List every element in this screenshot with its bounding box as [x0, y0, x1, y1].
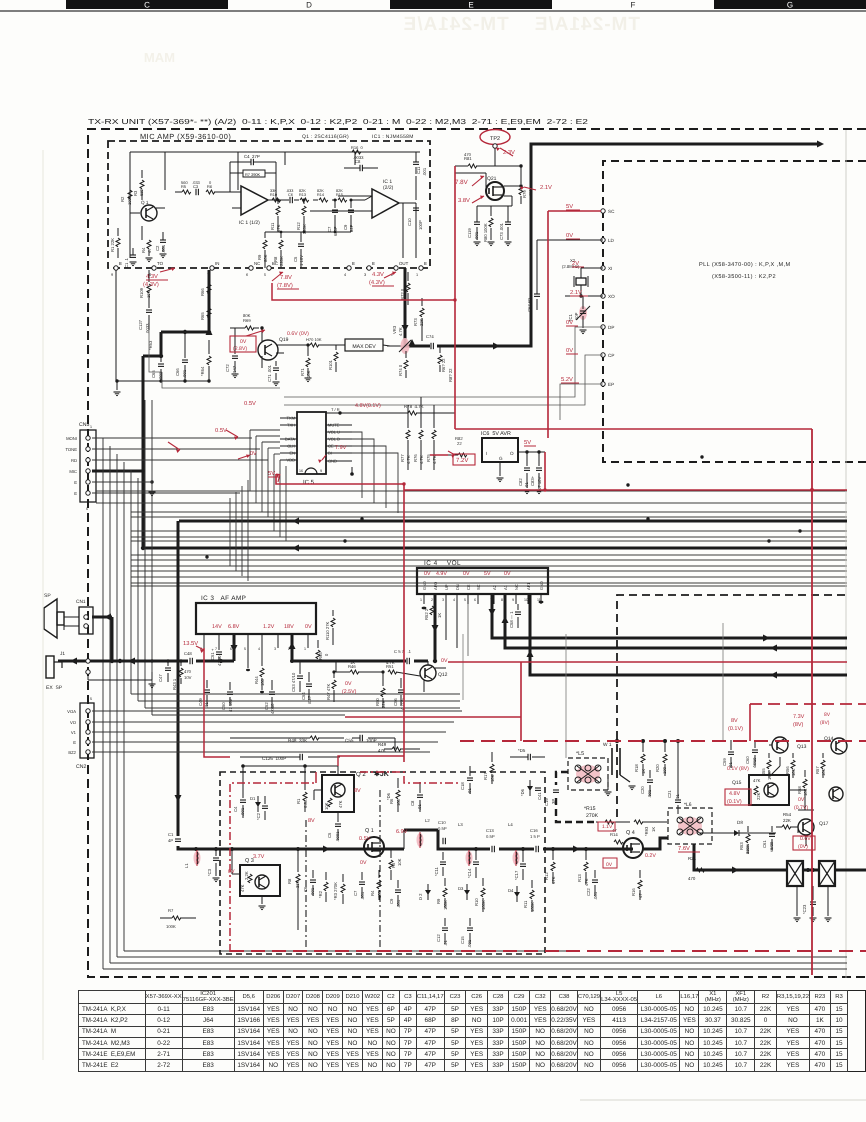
capacitor C67 5P	[534, 293, 540, 295]
svg-text:.001: .001	[360, 891, 365, 900]
resistor R2 100K	[128, 190, 132, 199]
op-amp IC1 (1/2)	[241, 186, 268, 215]
diode D4	[516, 886, 518, 902]
svg-text:22K: 22K	[419, 318, 424, 326]
capacitor C47 .1	[165, 667, 171, 669]
svg-text:80K: 80K	[243, 313, 251, 318]
diode D6	[529, 780, 531, 796]
svg-text:100K: 100K	[443, 900, 448, 910]
resistor R20 100	[663, 754, 667, 763]
capacitor C11b	[440, 861, 446, 863]
wire q15 to q13	[769, 744, 772, 746]
svg-text:C54: C54	[301, 692, 306, 700]
wire TP2 stub	[494, 148, 496, 166]
svg-text:R14: R14	[317, 193, 324, 197]
svg-text:C7: C7	[327, 226, 332, 232]
svg-text:0.6V (0V): 0.6V (0V)	[287, 331, 309, 337]
PLL module dashed box	[603, 161, 866, 462]
svg-text:R18: R18	[634, 764, 639, 772]
svg-text:C1: C1	[168, 832, 174, 837]
red wire IC5 VDD 5V run	[276, 474, 404, 484]
svg-text:C83+: C83+	[530, 475, 535, 486]
wire DP lead	[284, 327, 603, 397]
svg-text:0V: 0V	[228, 869, 235, 875]
svg-text:R7: R7	[168, 908, 174, 913]
transistor Q15 boxed	[749, 775, 789, 805]
svg-text:(8V): (8V)	[820, 720, 830, 726]
resistor R53 330K	[746, 834, 750, 843]
transformer L6 windings	[677, 817, 683, 823]
thick bus line y521	[179, 520, 847, 523]
capacitor C48 series 470 10V	[188, 656, 196, 666]
svg-text:4.7K: 4.7K	[432, 455, 437, 464]
wire pin4 stub	[261, 634, 263, 648]
wire bundle left verticals	[102, 438, 104, 969]
wire gnd rail q19	[117, 380, 209, 382]
resistor R16 0	[352, 150, 361, 154]
resistor R4 47	[147, 240, 151, 249]
capacitor C6 .033	[289, 197, 291, 203]
svg-text:100: 100	[260, 678, 265, 686]
svg-text:CN5: CN5	[79, 422, 89, 428]
svg-text:(0V): (0V)	[798, 844, 808, 850]
resistor R3b 270K	[341, 884, 345, 893]
thick wire pin2 stub	[291, 634, 294, 661]
wire d8 line	[700, 832, 726, 834]
capacitor C7 680P	[332, 209, 338, 211]
wire af mid lines	[335, 661, 337, 672]
svg-text:LD: LD	[608, 238, 615, 243]
svg-text:10K: 10K	[821, 768, 826, 776]
svg-text:T / R: T / R	[331, 407, 340, 412]
svg-text:0V: 0V	[606, 862, 613, 868]
schematic outer dashed border (TX-RX unit)	[88, 129, 866, 977]
svg-text:L1: L1	[184, 863, 189, 868]
svg-text:10K: 10K	[490, 774, 495, 782]
IC4 VOL box	[417, 568, 548, 594]
red wire af rail	[448, 661, 847, 663]
FE unit dashed box	[220, 772, 545, 954]
svg-text:C72: C72	[225, 364, 230, 372]
svg-text:.001: .001	[396, 899, 401, 908]
resistor R69 80K	[245, 326, 254, 330]
resistor R74 0	[404, 360, 408, 369]
resistor R80 100K	[489, 218, 493, 227]
svg-text:0V: 0V	[566, 319, 573, 326]
capacitor C14	[473, 861, 479, 863]
capacitor C56 4.7/25	[398, 689, 404, 691]
svg-text:(2/2): (2/2)	[383, 185, 394, 191]
wire SP to CN1	[64, 616, 79, 618]
svg-text:R21: R21	[688, 856, 697, 861]
wire mic-amp top rail	[130, 151, 420, 153]
svg-text:VO: VO	[70, 720, 77, 725]
thick wire IC4 AF1	[530, 594, 847, 675]
svg-text:10K: 10K	[324, 802, 329, 810]
svg-text:R10: R10	[474, 898, 479, 906]
svg-text:C15: C15	[460, 936, 465, 944]
wire nest IC5 right pins down	[352, 432, 362, 498]
svg-text:R101: R101	[328, 359, 333, 370]
capacitor C1 .1	[130, 254, 136, 256]
svg-text:Q1 : 2SC4116(GR): Q1 : 2SC4116(GR)	[302, 134, 349, 140]
thick bus line y548	[143, 547, 847, 550]
svg-text:47K: 47K	[753, 778, 761, 783]
resistor R56 10K	[791, 760, 795, 769]
svg-text:C22: C22	[586, 888, 591, 896]
svg-text:R44: R44	[254, 676, 259, 684]
svg-text:IC6 5V AVR: IC6 5V AVR	[481, 431, 511, 437]
svg-text:C82: C82	[518, 478, 523, 486]
svg-text:(X58-3500-11) : K2,P2: (X58-3500-11) : K2,P2	[712, 273, 776, 280]
svg-text:Q13: Q13	[797, 744, 807, 750]
svg-text:D1: D1	[250, 796, 256, 801]
svg-text:8V: 8V	[354, 788, 361, 794]
svg-text:82K: 82K	[299, 189, 306, 193]
svg-text:C21: C21	[667, 790, 672, 798]
svg-text:.001: .001	[161, 244, 166, 253]
wire c127 to bus	[149, 330, 162, 372]
svg-text:.01: .01	[675, 794, 680, 800]
wire Q2 leads	[337, 766, 339, 775]
svg-text:DN: DN	[455, 584, 460, 590]
thick wire between filters	[803, 869, 819, 872]
svg-text:22K: 22K	[756, 792, 761, 800]
svg-text:CN1: CN1	[76, 599, 86, 605]
svg-text:*D6: *D6	[386, 792, 391, 800]
diode D5	[527, 754, 529, 760]
crystal filter CF2	[819, 861, 835, 886]
svg-text:4.8V: 4.8V	[729, 791, 740, 797]
thick wire CN5 MIC to bus	[92, 470, 143, 473]
svg-text:0.5P: 0.5P	[486, 834, 495, 839]
resistor R46 1K	[350, 670, 359, 674]
svg-text:47K: 47K	[551, 876, 556, 884]
svg-text:6: 6	[474, 598, 476, 602]
wire Q21 source rail	[477, 205, 512, 207]
svg-text:Q 4: Q 4	[626, 830, 635, 836]
svg-text:Q15: Q15	[732, 780, 742, 786]
svg-text:NC: NC	[514, 584, 519, 590]
red wire IC6 in	[430, 454, 448, 456]
resistor R9b 100K	[443, 888, 447, 897]
resistor R109 10K	[147, 284, 151, 293]
wire mic out	[415, 203, 417, 258]
svg-text:C48: C48	[184, 651, 192, 656]
svg-text:NC: NC	[254, 261, 260, 266]
IC3 AF AMP box	[196, 603, 316, 634]
resistor R65 0	[207, 308, 211, 317]
svg-text:C18: C18	[460, 782, 465, 790]
resistor R1 22K	[116, 238, 120, 247]
capacitor C73 .001	[505, 221, 511, 223]
svg-text:R53: R53	[739, 842, 744, 850]
capacitor C6b .001	[310, 879, 316, 881]
thick wire af out	[292, 660, 428, 663]
capacitor C72 .047	[232, 355, 238, 357]
wire stubs below IC4	[445, 604, 447, 640]
resistor R50 22K	[381, 688, 385, 697]
svg-text:5V: 5V	[566, 204, 573, 210]
svg-text:E: E	[73, 740, 76, 745]
svg-text:TX-RX UNIT (X57-369*- **) (A/2: TX-RX UNIT (X57-369*- **) (A/2) 0-11 : K…	[88, 117, 588, 126]
svg-text:R4: R4	[141, 247, 146, 253]
svg-text:C65: C65	[151, 370, 156, 378]
svg-text:4P: 4P	[168, 838, 173, 843]
transistor Q1 FET rf	[364, 837, 384, 857]
op-amp IC1 (2/2)	[372, 189, 399, 218]
svg-text:C2: C2	[155, 245, 160, 251]
page fold line	[845, 130, 847, 978]
svg-text:AFO: AFO	[433, 582, 438, 590]
svg-text:100K: 100K	[166, 924, 176, 929]
svg-text:0.5V: 0.5V	[359, 836, 371, 842]
thick wire rf line horizontal	[188, 848, 404, 851]
svg-text:C7: C7	[353, 890, 358, 896]
svg-text:.001: .001	[647, 789, 652, 798]
svg-text:*C3: *C3	[207, 868, 212, 876]
svg-text:47K: 47K	[584, 878, 589, 886]
svg-text:R52 2: R52 2	[424, 608, 429, 620]
svg-text:.001: .001	[467, 939, 472, 948]
svg-text:1: 1	[304, 647, 306, 651]
svg-text:5: 5	[264, 273, 266, 277]
svg-text:7.8V: 7.8V	[455, 179, 469, 186]
svg-text:0V: 0V	[566, 347, 573, 354]
svg-text:100K: 100K	[530, 902, 535, 912]
resistor R5 560	[182, 190, 191, 194]
svg-text:3.8V: 3.8V	[458, 197, 470, 204]
svg-text:R57: R57	[815, 766, 820, 774]
capacitor C58 1	[515, 611, 521, 613]
svg-text:0V: 0V	[504, 571, 511, 577]
coil L4	[513, 851, 520, 865]
svg-text:4: 4	[258, 647, 260, 651]
MIC AMP module dashed box	[108, 141, 430, 268]
svg-text:100: 100	[396, 798, 401, 806]
svg-text:*C2: *C2	[256, 812, 261, 820]
resistor R64	[207, 356, 211, 365]
svg-text:D: D	[306, 1, 312, 10]
svg-text:UP: UP	[444, 584, 449, 590]
svg-text:C10: C10	[438, 820, 446, 825]
svg-text:R77: R77	[400, 454, 405, 462]
resistor R58 10K	[803, 779, 807, 788]
svg-text:3.7V: 3.7V	[253, 854, 265, 860]
test point TP2	[480, 130, 510, 145]
svg-text:9: 9	[320, 469, 322, 473]
wire XO lead	[565, 295, 603, 297]
svg-text:BC: BC	[272, 261, 278, 266]
resistor R10b 100K	[481, 888, 485, 897]
wire E pin stub	[115, 270, 117, 381]
svg-text:6: 6	[86, 507, 88, 511]
transistor Q3 boxed	[240, 865, 280, 896]
svg-text:CE: CE	[466, 584, 471, 590]
svg-text:8: 8	[501, 598, 503, 602]
svg-text:IC 3 AF AMP: IC 3 AF AMP	[201, 595, 246, 602]
capacitor C49 .01	[204, 689, 210, 691]
resistor R1rf 6.8K	[303, 792, 307, 801]
svg-text:2.1V: 2.1V	[540, 184, 552, 191]
speaker SP	[44, 599, 57, 638]
svg-text:O: O	[510, 451, 514, 456]
wire mic mid rail y232	[265, 231, 351, 233]
svg-text:XI: XI	[608, 266, 612, 271]
wire IC6 out	[518, 451, 545, 453]
ruler underline	[0, 10, 866, 12]
svg-text:H70 10K: H70 10K	[306, 337, 322, 342]
svg-text:4.7K: 4.7K	[386, 660, 395, 665]
resistor R14 82K	[319, 198, 328, 202]
svg-text:82K: 82K	[317, 189, 324, 193]
wire pin5 stub	[247, 634, 249, 668]
svg-text:1 16V: 1 16V	[299, 255, 304, 266]
coil L3	[466, 851, 473, 865]
svg-text:C10: C10	[407, 218, 412, 226]
svg-text:10K: 10K	[397, 858, 402, 866]
resistor R18 1K	[641, 754, 645, 763]
capacitor C13 0.5P series	[490, 844, 499, 854]
svg-text:270K: 270K	[586, 813, 599, 819]
thick wire J1 line	[58, 660, 234, 663]
svg-text:4: 4	[344, 273, 346, 277]
capacitor C50 47 16V	[227, 691, 233, 693]
svg-text:MAX DEV: MAX DEV	[352, 344, 376, 350]
svg-text:47 10V: 47 10V	[537, 477, 542, 490]
connector CN2	[80, 703, 94, 758]
resistor R6b2 100	[396, 790, 400, 799]
capacitor C7b .001	[359, 881, 365, 883]
wire Q21 drain-source	[504, 185, 521, 187]
svg-text:4.8V(0.1V): 4.8V(0.1V)	[355, 403, 381, 409]
resistor R67 22	[438, 355, 442, 364]
thick wire IC3 pin6 to speaker line	[233, 634, 236, 661]
svg-text:560: 560	[181, 180, 188, 185]
svg-text:IC 1 (1/2): IC 1 (1/2)	[239, 220, 260, 226]
resistor R110 27K	[331, 618, 335, 627]
svg-text:1: 1	[90, 425, 92, 429]
svg-text:10V: 10V	[184, 675, 192, 680]
svg-text:Q21: Q21	[487, 176, 497, 182]
svg-text:E: E	[372, 261, 375, 266]
capacitor C83 47 10V	[536, 467, 542, 469]
wire bus junction dots	[205, 555, 208, 558]
svg-text:100P: 100P	[366, 738, 377, 743]
transistor Q17	[798, 819, 814, 835]
wire CN5 E stub	[92, 481, 152, 483]
resistor R12b	[551, 862, 555, 871]
capacitor C41	[535, 787, 541, 789]
svg-text:C50: C50	[221, 702, 226, 710]
svg-text:Q 1: Q 1	[141, 200, 149, 205]
svg-text:1K: 1K	[437, 613, 442, 618]
svg-text:C9: C9	[389, 898, 394, 904]
svg-text:1 5 P: 1 5 P	[530, 834, 540, 839]
svg-text:.047: .047	[232, 365, 237, 374]
svg-text:.001: .001	[474, 231, 479, 240]
svg-text:CP: CP	[608, 353, 614, 358]
svg-text:2V: 2V	[572, 260, 579, 267]
capacitor C17	[520, 863, 526, 865]
transistor Q19	[258, 340, 278, 360]
svg-text:C73 .001: C73 .001	[499, 222, 504, 240]
svg-text:3: 3	[364, 273, 366, 277]
svg-text:0V: 0V	[360, 860, 367, 866]
svg-text:220K: 220K	[279, 256, 284, 266]
svg-text:C6: C6	[288, 193, 293, 197]
svg-text:EX SP: EX SP	[46, 685, 63, 691]
svg-text:Q 1: Q 1	[365, 828, 374, 834]
svg-text:7.9V: 7.9V	[335, 445, 347, 451]
svg-text:D3: D3	[458, 886, 464, 891]
wire filter gnd stubs	[796, 886, 798, 916]
transistor Q21 FET	[486, 182, 504, 200]
IC3 pins	[203, 634, 205, 648]
red wire Q2 8V	[338, 756, 404, 766]
resistor R4b 100	[377, 880, 381, 889]
wire CN2 lines	[92, 710, 462, 712]
svg-text:47 16V: 47 16V	[228, 699, 233, 712]
inner dash-dot partition	[305, 820, 307, 950]
svg-text:0V: 0V	[566, 232, 573, 239]
svg-text:R7 390K: R7 390K	[245, 172, 261, 177]
resistor R14b 47	[614, 840, 623, 844]
capacitor C9 82P	[348, 209, 354, 211]
capacitor C2 .001	[160, 239, 166, 241]
resistor R81 470	[468, 164, 477, 168]
wire ic4 gnd2	[540, 594, 542, 600]
svg-text:VR3: VR3	[392, 325, 397, 334]
svg-text:R11: R11	[270, 222, 275, 230]
svg-text:D8: D8	[737, 820, 743, 825]
IC4 pin1 gnd	[422, 607, 427, 610]
IC6 ground lead	[499, 462, 501, 476]
svg-text:R12: R12	[544, 872, 549, 880]
svg-text:1: 1	[420, 598, 422, 602]
resistor R13 82K	[300, 198, 309, 202]
svg-text:VOA: VOA	[67, 709, 76, 714]
svg-text:47/10: 47/10	[270, 703, 275, 714]
svg-text:0V: 0V	[250, 451, 257, 457]
resistor R8 220K	[279, 240, 283, 249]
wire q2 top rail	[243, 765, 338, 767]
thick wire IC4 A1 in	[505, 594, 847, 648]
svg-text:V1: V1	[71, 730, 77, 735]
PLL ports SC LD XI XO DP CP EP	[601, 209, 605, 213]
transformer L6 shield box	[668, 808, 712, 844]
svg-text:A2: A2	[492, 584, 497, 590]
capacitor C10 100P	[413, 207, 419, 209]
svg-text:R56: R56	[785, 766, 790, 774]
svg-text:C4 27P: C4 27P	[244, 154, 260, 159]
svg-text:10K: 10K	[306, 370, 311, 378]
red dashed rail mid	[460, 740, 866, 742]
svg-text:7.8V: 7.8V	[280, 274, 292, 281]
svg-text:C71 .001: C71 .001	[267, 364, 272, 382]
svg-text:C 5 7 .1: C 5 7 .1	[394, 649, 412, 654]
capacitor C66 .001	[182, 359, 188, 361]
svg-text:SP: SP	[44, 593, 51, 599]
svg-text:5: 5	[90, 697, 92, 701]
svg-text:33K: 33K	[295, 880, 300, 888]
svg-text:R12: R12	[296, 222, 301, 230]
svg-text:4.7K: 4.7K	[406, 455, 411, 464]
svg-text:*R15: *R15	[584, 806, 596, 812]
wire J1 gnd	[86, 659, 90, 663]
svg-text:7.6V: 7.6V	[678, 845, 690, 852]
svg-text:R79: R79	[522, 190, 527, 198]
